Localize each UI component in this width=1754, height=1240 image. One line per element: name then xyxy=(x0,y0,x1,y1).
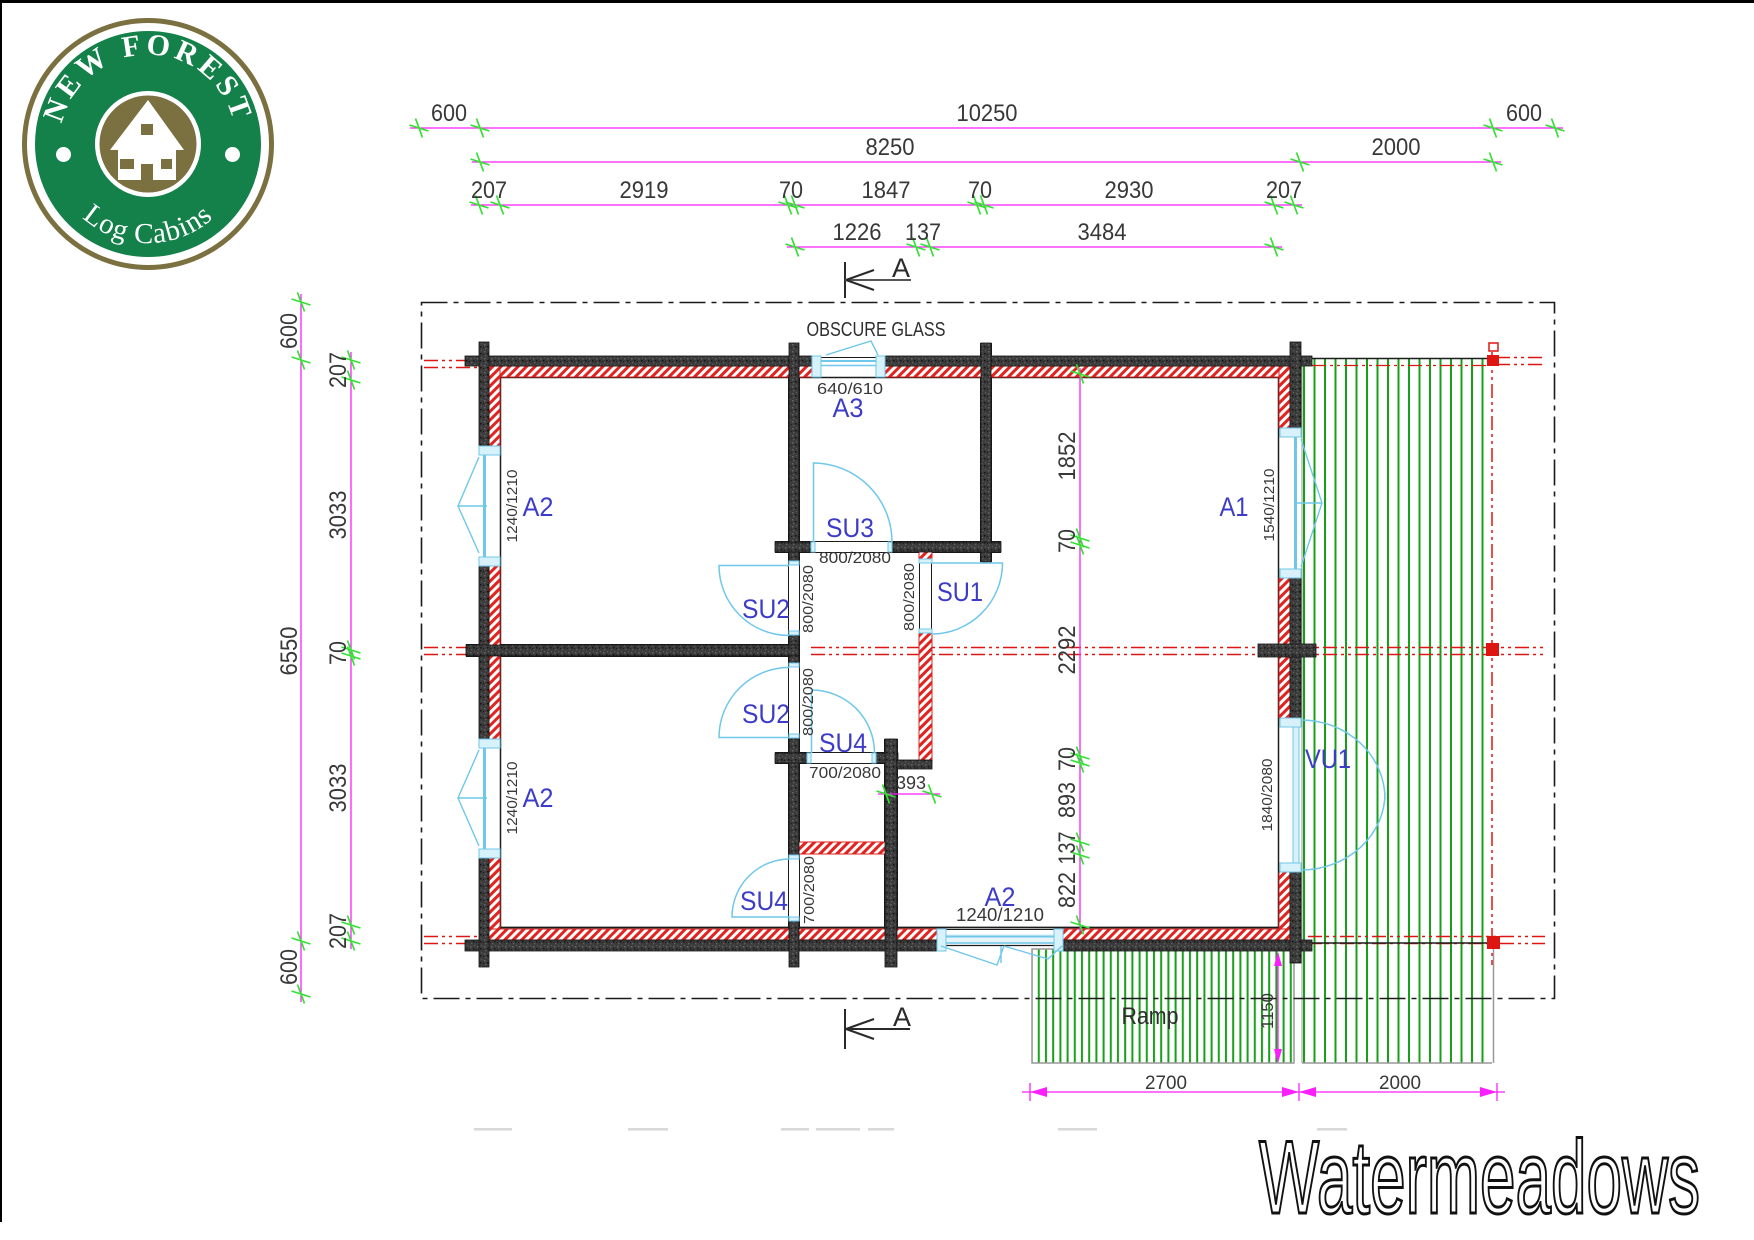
svg-text:1240/1210: 1240/1210 xyxy=(956,905,1044,925)
svg-text:1852: 1852 xyxy=(1054,432,1081,481)
svg-text:893: 893 xyxy=(1054,782,1081,818)
svg-text:600: 600 xyxy=(276,949,303,985)
svg-text:600: 600 xyxy=(431,100,467,127)
svg-text:137: 137 xyxy=(1054,832,1081,865)
svg-text:10250: 10250 xyxy=(957,100,1018,127)
svg-text:OBSCURE GLASS: OBSCURE GLASS xyxy=(807,319,946,341)
svg-text:SU2: SU2 xyxy=(742,594,790,624)
svg-text:2700: 2700 xyxy=(1145,1073,1187,1094)
svg-text:600: 600 xyxy=(276,313,303,349)
svg-text:70: 70 xyxy=(325,641,352,665)
svg-text:3033: 3033 xyxy=(325,764,352,813)
svg-text:207: 207 xyxy=(471,177,507,204)
svg-text:207: 207 xyxy=(1266,177,1302,204)
svg-text:800/2080: 800/2080 xyxy=(901,563,918,631)
svg-text:3033: 3033 xyxy=(325,491,352,540)
svg-text:600: 600 xyxy=(1506,100,1542,127)
svg-text:137: 137 xyxy=(905,219,941,246)
svg-text:700/2080: 700/2080 xyxy=(801,856,818,924)
svg-text:70: 70 xyxy=(1054,747,1081,771)
svg-text:A1: A1 xyxy=(1220,492,1249,522)
svg-text:2000: 2000 xyxy=(1379,1073,1421,1094)
svg-text:6550: 6550 xyxy=(276,627,303,676)
svg-text:70: 70 xyxy=(779,177,803,204)
svg-text:A2: A2 xyxy=(523,783,554,813)
svg-text:822: 822 xyxy=(1054,872,1081,908)
svg-text:2919: 2919 xyxy=(620,177,669,204)
svg-text:3484: 3484 xyxy=(1078,219,1127,246)
svg-text:393: 393 xyxy=(896,773,926,793)
svg-text:1840/2080: 1840/2080 xyxy=(1259,759,1276,832)
svg-text:70: 70 xyxy=(1054,529,1081,553)
svg-text:1540/1210: 1540/1210 xyxy=(1261,469,1278,542)
svg-text:Watermeadows: Watermeadows xyxy=(1259,1120,1700,1236)
svg-text:SU4: SU4 xyxy=(740,886,788,916)
svg-text:1240/1210: 1240/1210 xyxy=(504,762,521,835)
svg-text:1226: 1226 xyxy=(833,219,882,246)
svg-text:2292: 2292 xyxy=(1054,626,1081,675)
svg-text:A2: A2 xyxy=(523,492,554,522)
svg-text:A: A xyxy=(892,253,910,283)
svg-text:700/2080: 700/2080 xyxy=(809,765,881,782)
svg-text:70: 70 xyxy=(968,177,992,204)
svg-text:2930: 2930 xyxy=(1105,177,1154,204)
svg-text:A: A xyxy=(893,1002,911,1032)
svg-text:800/2080: 800/2080 xyxy=(800,565,817,633)
svg-text:207: 207 xyxy=(325,352,352,388)
svg-text:8250: 8250 xyxy=(866,134,915,161)
svg-text:SU1: SU1 xyxy=(937,577,983,607)
svg-text:1240/1210: 1240/1210 xyxy=(504,470,521,543)
svg-text:SU4: SU4 xyxy=(819,728,867,758)
svg-text:2000: 2000 xyxy=(1372,134,1421,161)
svg-text:640/610: 640/610 xyxy=(817,381,883,398)
svg-text:SU2: SU2 xyxy=(742,699,790,729)
svg-text:VU1: VU1 xyxy=(1305,744,1351,774)
svg-text:1847: 1847 xyxy=(862,177,911,204)
svg-text:800/2080: 800/2080 xyxy=(819,550,891,567)
svg-text:SU3: SU3 xyxy=(826,513,874,543)
svg-text:Ramp: Ramp xyxy=(1122,1003,1179,1030)
svg-text:207: 207 xyxy=(325,913,352,949)
svg-text:1150: 1150 xyxy=(1258,993,1277,1029)
svg-text:800/2080: 800/2080 xyxy=(800,668,817,736)
